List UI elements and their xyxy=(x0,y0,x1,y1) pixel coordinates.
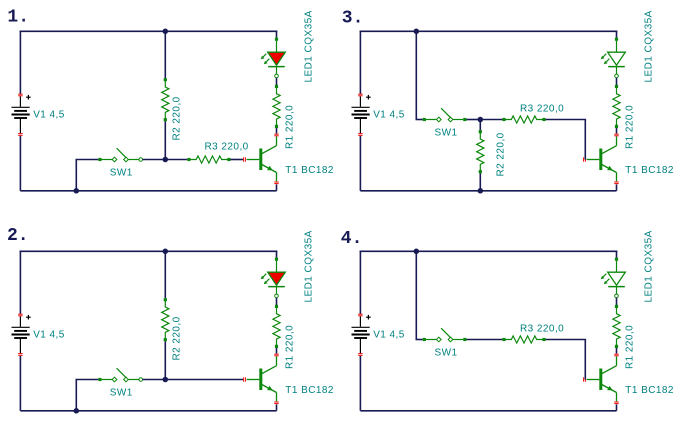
resistor R1 value label c3 xyxy=(624,105,635,149)
svg-text:1.: 1. xyxy=(7,8,29,28)
transistor T1 c3 xyxy=(599,136,616,181)
switch SW1 c3 xyxy=(426,108,463,122)
wire top rail to R2 c2 xyxy=(164,251,166,298)
wire LED to R1 c2 xyxy=(276,298,278,305)
resistor R3 left pin c3 xyxy=(502,118,505,121)
wire LED to R1 c1 xyxy=(276,78,278,85)
svg-text:V1 4,5: V1 4,5 xyxy=(33,109,65,120)
LED LED1 anode pin c4 xyxy=(615,258,618,261)
battery V1 positive pin tick c4 xyxy=(358,314,362,316)
node top rail junction c4 xyxy=(414,249,420,255)
resistor R3 right pin c3 xyxy=(542,118,545,121)
wire R2 to switch row c1 xyxy=(164,121,166,159)
resistor R1 c2 xyxy=(273,306,280,346)
node bottom rail junction c2 xyxy=(74,408,80,414)
transistor T1 name label c2 xyxy=(285,385,334,396)
resistor R3 value label c4 xyxy=(520,323,564,334)
transistor T1 collector pin tick c1 xyxy=(274,134,278,136)
resistor R3 c4 xyxy=(504,336,544,343)
wire R3 to corner c3 xyxy=(546,119,587,121)
switch SW1 left terminal c4 xyxy=(423,338,426,341)
wire R2 to switch row c2 xyxy=(164,341,166,379)
resistor R3 right pin c1 xyxy=(227,158,230,161)
svg-text:SW1: SW1 xyxy=(435,127,458,138)
LED LED1 cathode pin c2 xyxy=(275,294,279,298)
svg-text:T1 BC182: T1 BC182 xyxy=(625,385,674,396)
transistor T1 collector pin tick c2 xyxy=(274,354,278,356)
battery V1 plus sign c3 xyxy=(366,95,371,100)
battery V1 plus sign c1 xyxy=(26,95,31,100)
LED LED1 c4 xyxy=(608,272,626,286)
svg-text:SW1: SW1 xyxy=(110,167,133,178)
switch SW1 name label c4 xyxy=(435,347,458,358)
wire LED anode lead c3 xyxy=(616,41,618,52)
transistor T1 emitter pin tick c1 xyxy=(274,182,278,184)
wire corner down to base c4 xyxy=(584,340,586,380)
circuit 2 number label xyxy=(7,226,29,246)
svg-text:4.: 4. xyxy=(341,229,363,249)
wire LED cathode lead c2 xyxy=(276,287,278,295)
node R2 top junction c3 xyxy=(478,117,484,123)
LED LED1 name label c4 xyxy=(644,230,655,302)
resistor R2 top pin c2 xyxy=(164,298,167,301)
resistor R2 top pin c3 xyxy=(479,130,482,133)
wire corner down to base c3 xyxy=(584,120,586,160)
battery V1 plus sign c4 xyxy=(366,315,371,320)
transistor T1 name label c1 xyxy=(285,165,334,176)
svg-text:R1 220,0: R1 220,0 xyxy=(624,325,635,369)
node top rail junction c3 xyxy=(414,29,420,35)
transistor T1 base lead c3 xyxy=(587,159,600,161)
svg-text:T1 BC182: T1 BC182 xyxy=(625,165,674,176)
switch SW1 c4 xyxy=(426,328,463,342)
wire LED cathode lead c3 xyxy=(616,67,618,75)
resistor R2 value label c2 xyxy=(171,316,182,360)
wire top rail c4 xyxy=(360,250,618,252)
svg-text:LED1 CQX35A: LED1 CQX35A xyxy=(644,10,655,82)
node bottom rail junction c1 xyxy=(74,188,80,194)
switch SW1 c2 xyxy=(102,368,139,382)
LED LED1 light arrow 2 c1 xyxy=(264,59,270,65)
svg-text:T1 BC182: T1 BC182 xyxy=(285,165,334,176)
LED LED1 anode pin c3 xyxy=(615,38,618,41)
node top rail junction c2 xyxy=(163,249,169,255)
resistor R3 value label c3 xyxy=(520,103,564,114)
wire LED to R1 c3 xyxy=(616,78,618,85)
switch SW1 left terminal c2 xyxy=(98,378,101,381)
LED LED1 c1 xyxy=(268,52,286,66)
wire switch to R3 c4 xyxy=(466,339,502,341)
transistor T1 base lead c2 xyxy=(247,379,260,381)
svg-text:R1 220,0: R1 220,0 xyxy=(284,105,295,149)
battery V1 negative pin tick c4 xyxy=(358,354,362,356)
svg-text:V1 4,5: V1 4,5 xyxy=(33,329,65,340)
wire LED anode stub c2 xyxy=(276,251,278,258)
svg-text:3.: 3. xyxy=(342,9,364,29)
svg-text:R1 220,0: R1 220,0 xyxy=(624,105,635,149)
LED LED1 name label c3 xyxy=(644,10,655,82)
node top rail junction c1 xyxy=(163,29,169,35)
wire emitter to bottom rail c2 xyxy=(276,404,278,410)
wire LED anode lead c1 xyxy=(276,41,278,52)
wire left rail upper c1 xyxy=(19,31,21,95)
resistor R1 bottom pin c1 xyxy=(275,125,278,128)
resistor R1 bottom pin c3 xyxy=(615,125,618,128)
transistor T1 base lead c4 xyxy=(587,379,600,381)
wire bottom rail c4 xyxy=(360,410,616,412)
resistor R3 c3 xyxy=(504,116,544,123)
wire left rail upper c2 xyxy=(19,251,21,315)
LED LED1 light arrow 2 c2 xyxy=(264,279,270,285)
battery V1 value label c1 xyxy=(33,109,65,120)
wire LED anode stub c4 xyxy=(616,251,618,258)
svg-text:R3 220,0: R3 220,0 xyxy=(520,323,564,334)
battery V1 c1 xyxy=(12,96,30,133)
wire R1 to collector c3 xyxy=(616,128,618,134)
wire top rail to R2 c1 xyxy=(164,31,166,78)
LED LED1 cathode pin c1 xyxy=(275,74,279,78)
switch SW1 right terminal c3 xyxy=(463,118,466,121)
wire LED cathode lead c1 xyxy=(276,67,278,75)
resistor R3 value label c1 xyxy=(205,142,249,153)
wire bottom rail c3 xyxy=(360,190,616,192)
switch SW1 left terminal c3 xyxy=(423,118,426,121)
transistor T1 base pin tick c4 xyxy=(584,377,586,381)
battery V1 c3 xyxy=(352,96,370,133)
wire top rail c1 xyxy=(20,30,278,32)
svg-text:LED1 CQX35A: LED1 CQX35A xyxy=(304,10,315,82)
resistor R1 top pin c1 xyxy=(275,85,278,88)
wire R1 to collector c4 xyxy=(616,348,618,354)
wire R2 junction to R3 c3 xyxy=(480,119,502,121)
resistor R2 c2 xyxy=(162,300,169,340)
switch SW1 right terminal c2 xyxy=(139,378,143,382)
circuit 1 number label xyxy=(7,8,29,28)
LED LED1 light arrow 1 c3 xyxy=(601,54,607,60)
wire left rail lower c2 xyxy=(19,356,21,411)
resistor R3 right pin c4 xyxy=(542,338,545,341)
wire R3 to corner c4 xyxy=(546,339,587,341)
wire R1 to collector c2 xyxy=(276,348,278,354)
LED LED1 cathode pin c3 xyxy=(615,74,619,78)
switch SW1 right terminal c4 xyxy=(463,338,466,341)
battery V1 positive pin tick c3 xyxy=(358,94,362,96)
wire switch feed left c4 xyxy=(416,339,423,341)
wire junction to base c2 xyxy=(165,379,243,381)
wire emitter to bottom rail c3 xyxy=(616,184,618,190)
resistor R2 value label c3 xyxy=(495,132,506,176)
LED LED1 name label c2 xyxy=(304,230,315,302)
svg-text:2.: 2. xyxy=(7,226,29,246)
LED LED1 light arrow 1 c1 xyxy=(261,54,267,60)
resistor R1 value label c1 xyxy=(284,105,295,149)
resistor R1 value label c2 xyxy=(284,325,295,369)
switch SW1 right terminal c1 xyxy=(139,158,143,162)
switch SW1 name label c1 xyxy=(110,167,133,178)
wire top junction down c4 xyxy=(415,251,417,339)
battery V1 positive pin tick c1 xyxy=(18,94,22,96)
svg-text:R3 220,0: R3 220,0 xyxy=(520,103,564,114)
resistor R1 c1 xyxy=(273,86,280,126)
wire junction to R3 c1 xyxy=(165,159,187,161)
battery V1 negative pin tick c3 xyxy=(358,134,362,136)
battery V1 value label c4 xyxy=(373,329,405,340)
wire left rail lower c4 xyxy=(359,356,361,411)
LED LED1 name label c1 xyxy=(304,10,315,82)
resistor R1 bottom pin c2 xyxy=(275,345,278,348)
transistor T1 emitter pin tick c3 xyxy=(614,182,618,184)
transistor T1 emitter pin tick c2 xyxy=(274,402,278,404)
transistor T1 name label c4 xyxy=(625,385,674,396)
wire emitter to bottom rail c1 xyxy=(276,184,278,190)
wire bottom rail c1 xyxy=(20,190,276,192)
wire R2 to bottom rail c3 xyxy=(479,173,481,191)
battery V1 value label c2 xyxy=(33,329,65,340)
svg-text:SW1: SW1 xyxy=(435,347,458,358)
wire left rail lower c1 xyxy=(19,136,21,191)
svg-text:R2 220,0: R2 220,0 xyxy=(171,96,182,140)
circuit 3 number label xyxy=(342,9,364,29)
transistor T1 base pin tick c3 xyxy=(584,157,586,161)
svg-text:R2 220,0: R2 220,0 xyxy=(171,316,182,360)
transistor T1 c1 xyxy=(259,136,276,181)
svg-text:R3 220,0: R3 220,0 xyxy=(205,142,249,153)
LED LED1 cathode pin c4 xyxy=(615,294,619,298)
LED LED1 c2 xyxy=(268,272,286,286)
switch SW1 left terminal c1 xyxy=(98,158,101,161)
transistor T1 base pin tick c2 xyxy=(244,377,246,381)
wire left rail lower c3 xyxy=(359,136,361,191)
wire LED anode lead c4 xyxy=(616,261,618,272)
transistor T1 emitter pin tick c4 xyxy=(614,402,618,404)
resistor R2 value label c1 xyxy=(171,96,182,140)
transistor T1 base pin tick c1 xyxy=(244,157,246,161)
resistor R2 c3 xyxy=(477,132,484,172)
wire switch branch left c1 xyxy=(76,159,99,161)
wire left rail upper c4 xyxy=(359,251,361,315)
battery V1 c2 xyxy=(12,316,30,353)
svg-text:LED1 CQX35A: LED1 CQX35A xyxy=(304,230,315,302)
wire R2 junction down c3 xyxy=(479,120,481,131)
LED LED1 c3 xyxy=(608,52,626,66)
wire left rail upper c3 xyxy=(359,31,361,95)
wire bottom rail to switch c2 xyxy=(75,380,77,411)
battery V1 plus sign c2 xyxy=(26,315,31,320)
battery V1 c4 xyxy=(352,316,370,353)
wire switch to junction c1 xyxy=(143,159,166,161)
circuit 4 number label xyxy=(341,229,363,249)
wire top junction down c3 xyxy=(415,31,417,119)
transistor T1 c2 xyxy=(259,356,276,401)
wire R1 to collector c1 xyxy=(276,128,278,134)
transistor T1 base lead c1 xyxy=(247,159,260,161)
resistor R2 bottom pin c3 xyxy=(479,170,482,173)
LED LED1 light arrow 1 c2 xyxy=(261,274,267,280)
transistor T1 name label c3 xyxy=(625,165,674,176)
resistor R3 c1 xyxy=(189,156,229,163)
wire bottom rail to switch c1 xyxy=(75,160,77,191)
resistor R2 c1 xyxy=(162,80,169,120)
switch SW1 c1 xyxy=(102,148,139,162)
wire switch feed left c3 xyxy=(416,119,423,121)
battery V1 positive pin tick c2 xyxy=(18,314,22,316)
resistor R2 bottom pin c1 xyxy=(164,118,167,121)
svg-text:T1 BC182: T1 BC182 xyxy=(285,385,334,396)
wire switch to R2 junction c3 xyxy=(466,119,480,121)
resistor R3 left pin c4 xyxy=(502,338,505,341)
wire R3 to base c1 xyxy=(231,159,244,161)
node switch row junction c2 xyxy=(163,377,169,383)
wire LED to R1 c4 xyxy=(616,298,618,305)
wire bottom rail c2 xyxy=(20,410,276,412)
resistor R2 top pin c1 xyxy=(164,78,167,81)
wire top rail c2 xyxy=(20,250,278,252)
LED LED1 light arrow 2 c3 xyxy=(604,59,610,65)
LED LED1 anode pin c2 xyxy=(275,258,278,261)
svg-text:R2 220,0: R2 220,0 xyxy=(495,132,506,176)
battery V1 negative pin tick c2 xyxy=(18,354,22,356)
resistor R1 top pin c4 xyxy=(615,305,618,308)
svg-text:V1 4,5: V1 4,5 xyxy=(373,329,405,340)
wire LED anode stub c3 xyxy=(616,31,618,38)
resistor R2 bottom pin c2 xyxy=(164,338,167,341)
transistor T1 collector pin tick c4 xyxy=(614,354,618,356)
resistor R1 bottom pin c4 xyxy=(615,345,618,348)
resistor R1 top pin c3 xyxy=(615,85,618,88)
wire switch branch left c2 xyxy=(76,379,99,381)
wire switch to junction c2 xyxy=(143,379,166,381)
battery V1 value label c3 xyxy=(373,109,405,120)
node switch row junction c1 xyxy=(163,157,169,163)
wire LED anode lead c2 xyxy=(276,261,278,272)
resistor R1 c4 xyxy=(613,306,620,346)
wire emitter to bottom rail c4 xyxy=(616,404,618,410)
wire top rail c3 xyxy=(360,30,618,32)
svg-text:LED1 CQX35A: LED1 CQX35A xyxy=(644,230,655,302)
svg-text:SW1: SW1 xyxy=(110,387,133,398)
battery V1 negative pin tick c1 xyxy=(18,134,22,136)
wire LED cathode lead c4 xyxy=(616,287,618,295)
resistor R3 left pin c1 xyxy=(187,158,190,161)
LED LED1 light arrow 2 c4 xyxy=(604,279,610,285)
svg-text:R1 220,0: R1 220,0 xyxy=(284,325,295,369)
wire LED anode stub c1 xyxy=(276,31,278,38)
svg-text:V1 4,5: V1 4,5 xyxy=(373,109,405,120)
resistor R1 c3 xyxy=(613,86,620,126)
LED LED1 anode pin c1 xyxy=(275,38,278,41)
node bottom rail junction c3 xyxy=(478,188,484,194)
switch SW1 name label c2 xyxy=(110,387,133,398)
transistor T1 c4 xyxy=(599,356,616,401)
transistor T1 collector pin tick c3 xyxy=(614,134,618,136)
LED LED1 light arrow 1 c4 xyxy=(601,274,607,280)
resistor R1 top pin c2 xyxy=(275,305,278,308)
switch SW1 name label c3 xyxy=(435,127,458,138)
resistor R1 value label c4 xyxy=(624,325,635,369)
